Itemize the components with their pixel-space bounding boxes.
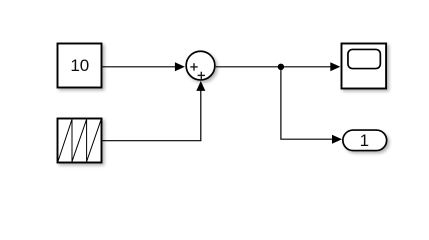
constant block C1 "10"	[58, 44, 102, 88]
svg-text:10: 10	[70, 56, 89, 75]
sawtooth waveform	[58, 119, 101, 162]
arrowhead into outport	[332, 135, 342, 144]
scope screen	[348, 49, 380, 68]
arrowhead into scope	[330, 62, 340, 71]
svg-text:1: 1	[360, 131, 369, 150]
scope block	[342, 44, 387, 89]
wire: junction down then right to outport	[281, 67, 334, 139]
plus sign (bottom input)	[198, 72, 205, 79]
arrowhead into sum bottom port	[196, 81, 205, 91]
junction dot	[278, 64, 284, 70]
wire: signal generator to sum (right then up)	[103, 91, 201, 141]
wire: sum to scope	[216, 66, 332, 68]
arrowhead into sum left port	[175, 62, 185, 71]
plus sign (left input)	[190, 63, 197, 70]
wire: constant to sum	[103, 66, 177, 68]
outport block "1"	[343, 130, 387, 151]
sum block U1	[186, 51, 215, 80]
signal generator block (sawtooth)	[58, 119, 102, 163]
